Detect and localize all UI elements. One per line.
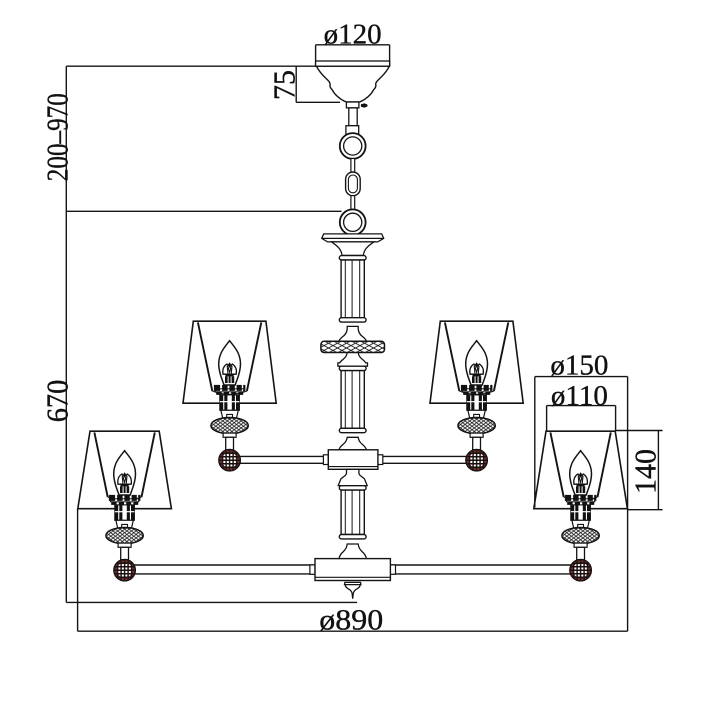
chain connector block [346, 126, 359, 137]
svg-text:ø150: ø150 [550, 349, 608, 381]
extension line right of canopy [389, 45, 391, 66]
lamp lower right [534, 431, 628, 581]
column capital plate [322, 234, 384, 242]
extension line left of canopy [315, 45, 317, 66]
left dimension vertical [65, 66, 67, 602]
svg-text:75: 75 [268, 70, 302, 100]
upper junction box [323, 455, 328, 465]
dimension 75 vertical [295, 66, 297, 102]
chain oval link [346, 172, 361, 196]
svg-text:ø120: ø120 [324, 18, 382, 50]
column cushion 5 [338, 469, 367, 485]
datum line body bottom y=602 [66, 601, 357, 603]
canopy plate [316, 61, 390, 66]
datum line chain bottom y=211 [66, 210, 341, 212]
canopy hub [346, 102, 359, 108]
column shaft 3 [339, 486, 366, 539]
chain edge link A [351, 158, 355, 172]
dimension line Ø110 [547, 405, 616, 407]
canopy screw [361, 103, 367, 107]
lamp lower left [78, 431, 172, 581]
chain ring 1 [340, 133, 366, 159]
upper arm tube right [378, 456, 477, 463]
lamp upper right [430, 321, 523, 471]
dimension 140 top tick [616, 430, 663, 432]
svg-text:140: 140 [629, 449, 663, 494]
dimension Ø110 left extension [546, 406, 548, 431]
lower arm tube left [125, 565, 315, 574]
dimension Ø890 left extension [77, 509, 79, 631]
column cushion 3 [338, 353, 368, 367]
column cushion 4 [339, 437, 366, 450]
column cushion 1 [332, 242, 374, 256]
lamp upper left [183, 321, 276, 471]
column crystal disc [321, 341, 385, 352]
column cushion 6 [339, 544, 366, 559]
dimension line Ø150 [535, 376, 628, 378]
svg-text:ø890: ø890 [319, 604, 383, 637]
dimension Ø890 / Ø150 right extension [627, 377, 629, 632]
top datum line y=66 [66, 65, 390, 67]
dimension Ø150 left extension [534, 377, 536, 508]
dimension Ø110 right extension [615, 406, 617, 431]
bottom finial [345, 582, 361, 598]
svg-text:ø110: ø110 [551, 380, 608, 412]
canopy dome [317, 66, 390, 102]
chain ring 2 [340, 209, 366, 235]
svg-text:670: 670 [41, 380, 75, 423]
dimension 140 vertical [657, 431, 659, 510]
chain edge link B [351, 196, 355, 210]
canopy stem [349, 108, 357, 126]
upper arm tube left [230, 456, 329, 463]
dimension line Ø120 [316, 44, 390, 46]
column shaft 1 [339, 256, 366, 323]
dimension 75 bottom tick [296, 101, 340, 103]
svg-text:200–970: 200–970 [41, 93, 75, 181]
dimension 140 bottom tick [628, 509, 663, 511]
lower arm tube right [390, 565, 580, 574]
dimension line Ø890 [78, 630, 628, 632]
column cushion 2 [339, 326, 366, 341]
column shaft 2 [339, 366, 366, 433]
lower junction box [310, 565, 315, 574]
